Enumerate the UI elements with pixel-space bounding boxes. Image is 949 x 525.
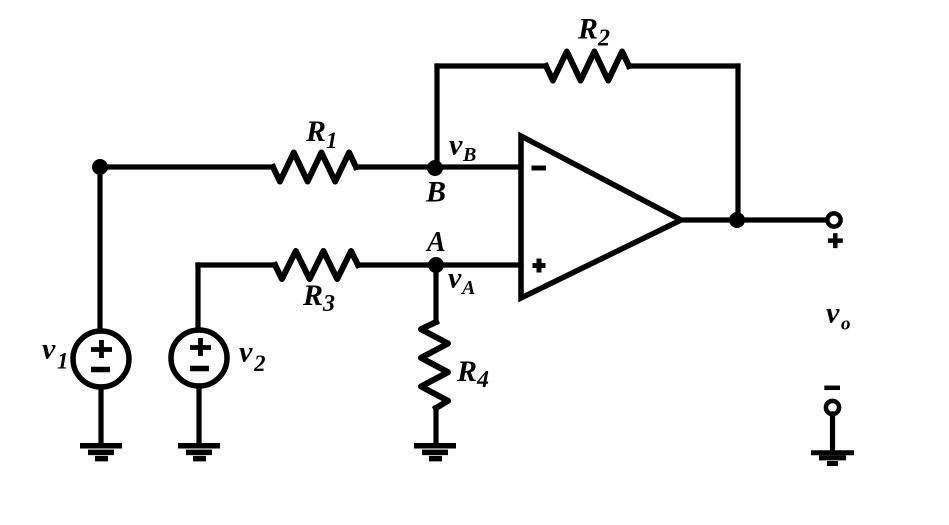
wire feedback right vertical to output node: [735, 66, 740, 220]
svg-text:4: 4: [476, 367, 489, 393]
voltage source v2: [171, 330, 227, 386]
terminal output negative: [826, 401, 839, 414]
voltage source v1: [73, 331, 129, 387]
svg-text:o: o: [841, 314, 851, 335]
output minus sign: [824, 386, 840, 391]
svg-text:v: v: [448, 262, 462, 295]
v2 minus sign: [190, 366, 209, 372]
v1 plus sign: [91, 340, 112, 358]
wire node A down to R4: [433, 265, 438, 322]
svg-text:R: R: [305, 115, 326, 148]
svg-text:R: R: [577, 13, 598, 46]
resistor R2: [546, 52, 629, 81]
svg-text:R: R: [456, 355, 477, 388]
wire from node v1 to R1: [100, 164, 273, 169]
wire feedback top right: [629, 63, 738, 68]
label vB at node B: [449, 129, 476, 167]
terminal output positive: [827, 213, 840, 226]
label vo: [826, 297, 851, 335]
svg-text:2: 2: [253, 351, 266, 376]
svg-text:A: A: [460, 277, 475, 299]
label R2: [577, 13, 610, 52]
label B: [425, 176, 446, 209]
output plus sign: [828, 233, 843, 248]
ground output: [811, 453, 854, 464]
svg-text:B: B: [425, 176, 446, 209]
label R3: [302, 279, 335, 317]
resistor R1: [273, 153, 356, 182]
wire from R1 to op-amp inverting input through node B: [356, 164, 521, 169]
label R1: [305, 115, 338, 153]
node v1 top: [92, 159, 108, 175]
v1 minus sign: [91, 367, 110, 373]
node B: [427, 160, 443, 176]
wire v2 to ground: [196, 386, 201, 443]
svg-text:R: R: [302, 279, 323, 312]
wire from v2 node to R3: [198, 262, 275, 267]
label vA at node A: [448, 262, 475, 300]
label A: [425, 227, 446, 258]
svg-text:2: 2: [597, 26, 610, 52]
wire R4 to ground: [433, 408, 438, 443]
ground R4: [414, 446, 456, 459]
wire lower terminal to ground: [830, 414, 835, 450]
v2 plus sign: [190, 338, 211, 356]
wire op-amp output: [681, 217, 826, 222]
node A: [428, 257, 444, 273]
svg-text:v: v: [449, 129, 463, 162]
resistor R3: [275, 251, 358, 279]
label R4: [456, 355, 489, 393]
svg-text:A: A: [425, 227, 446, 258]
svg-text:3: 3: [322, 291, 335, 317]
wire from R3 to op-amp noninverting input through node A: [358, 262, 521, 267]
svg-text:B: B: [462, 144, 476, 166]
wire v1 to ground: [98, 387, 103, 443]
op-amp U1: [521, 136, 681, 298]
svg-text:1: 1: [326, 128, 338, 153]
wire feedback left vertical from node B: [434, 66, 439, 167]
svg-text:v: v: [42, 333, 56, 366]
ground v1: [80, 446, 122, 459]
svg-text:v: v: [826, 297, 840, 330]
svg-text:v: v: [239, 336, 253, 369]
wire feedback top left: [437, 63, 546, 68]
svg-text:1: 1: [57, 349, 69, 374]
ground v2: [178, 446, 220, 459]
wire node v2 down to source: [195, 265, 200, 330]
label v2: [239, 336, 266, 377]
node output junction: [729, 212, 745, 228]
op-amp minus input marking: [532, 166, 547, 171]
label v1: [42, 333, 69, 374]
resistor R4: [421, 322, 448, 408]
wire node v1 down to source: [97, 167, 102, 331]
op-amp plus input marking: [533, 259, 546, 273]
